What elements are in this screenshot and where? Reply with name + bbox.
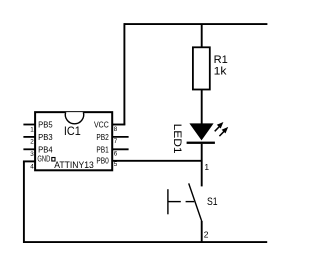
wire VCC stub to IC (112, 124, 125, 126)
svg-text:ATTINY13: ATTINY13 (54, 160, 94, 171)
LED1 light arrow 1 (215, 122, 224, 131)
svg-text:LED1: LED1 (171, 124, 183, 154)
svg-text:2: 2 (30, 139, 34, 146)
svg-text:GND: GND (37, 153, 50, 163)
switch S1 actuator link dash (186, 201, 195, 203)
pin stub PB5 (1) (23, 124, 35, 126)
svg-text:3: 3 (30, 151, 34, 158)
svg-text:7: 7 (114, 138, 118, 145)
wire R1 to LED1 (201, 90, 203, 125)
pin stub PB1 (6) (112, 148, 128, 150)
wire top rail to R1 (201, 24, 203, 47)
wire GND stub to IC pin 4 (23, 160, 35, 162)
wire IC PB0 to LED/switch node (112, 160, 202, 162)
wire bottom rail (24, 241, 267, 243)
svg-text:2: 2 (204, 230, 209, 240)
svg-text:6: 6 (114, 151, 118, 158)
svg-text:5: 5 (114, 161, 118, 168)
svg-text:VCC: VCC (94, 120, 109, 130)
pin stub PB4 (3) (23, 148, 35, 150)
wire switch pin 2 to bottom rail (201, 221, 203, 242)
svg-text:PB3: PB3 (38, 132, 53, 142)
svg-text:IC1: IC1 (64, 124, 81, 138)
LED1 cathode bar (187, 142, 215, 144)
svg-text:1k: 1k (214, 65, 227, 77)
wire VCC top rail (124, 23, 267, 25)
svg-text:PB1: PB1 (96, 144, 109, 154)
switch S1 actuator link solid (168, 201, 181, 203)
LED1 light arrow 2 (219, 127, 228, 136)
switch S1 blade (189, 183, 202, 221)
svg-text:PB0: PB0 (96, 155, 109, 165)
svg-text:8: 8 (114, 126, 118, 133)
svg-text:PB5: PB5 (38, 120, 53, 130)
svg-text:R1: R1 (214, 54, 228, 66)
resistor R1 (193, 47, 210, 89)
wire VCC vertical to IC pin 8 (123, 23, 125, 124)
wire left vertical GND return (23, 161, 25, 243)
pin stub PB3 (2) (23, 136, 35, 138)
wire LED1 cathode down to switch pin 1 (201, 144, 203, 187)
svg-text:1: 1 (204, 162, 209, 172)
IC1 ATTINY13 body (35, 112, 112, 170)
pin stub PB2 (7) (112, 136, 128, 138)
switch S1 actuator bar (167, 189, 169, 214)
svg-text:4: 4 (30, 164, 34, 171)
svg-text:S1: S1 (207, 196, 218, 208)
IC1 notch (65, 112, 83, 124)
svg-text:PB2: PB2 (96, 132, 109, 142)
GND pin marker square (52, 158, 55, 162)
LED1 anode triangle (189, 123, 213, 140)
svg-text:1: 1 (30, 126, 34, 133)
